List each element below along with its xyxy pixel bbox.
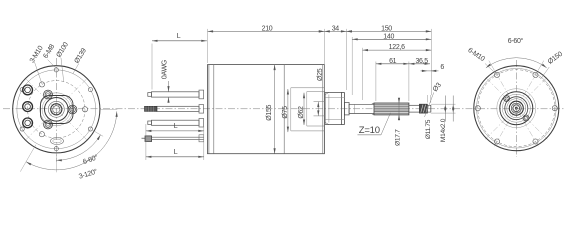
svg-text:210: 210: [262, 25, 273, 32]
svg-text:36,5: 36,5: [415, 58, 428, 65]
svg-text:34: 34: [332, 25, 340, 32]
svg-text:Ø62: Ø62: [298, 106, 305, 119]
svg-text:L: L: [174, 123, 178, 130]
svg-text:Ø17.7: Ø17.7: [395, 129, 402, 146]
svg-text:6: 6: [440, 64, 444, 71]
svg-text:122,6: 122,6: [389, 44, 405, 51]
svg-text:Ø11.75: Ø11.75: [425, 119, 432, 139]
svg-text:M14x2.0: M14x2.0: [440, 118, 447, 142]
svg-text:L: L: [177, 33, 181, 40]
svg-text:L: L: [174, 149, 178, 156]
svg-text:Ø25: Ø25: [317, 68, 324, 81]
svg-text:Ø75: Ø75: [282, 106, 289, 119]
svg-text:0AWG: 0AWG: [162, 60, 169, 79]
svg-text:Ø155: Ø155: [266, 104, 273, 120]
svg-text:140: 140: [383, 33, 394, 40]
svg-text:6-60°: 6-60°: [508, 37, 524, 45]
svg-text:Z=10: Z=10: [359, 125, 380, 136]
svg-text:150: 150: [381, 25, 392, 32]
svg-text:61: 61: [389, 58, 397, 65]
